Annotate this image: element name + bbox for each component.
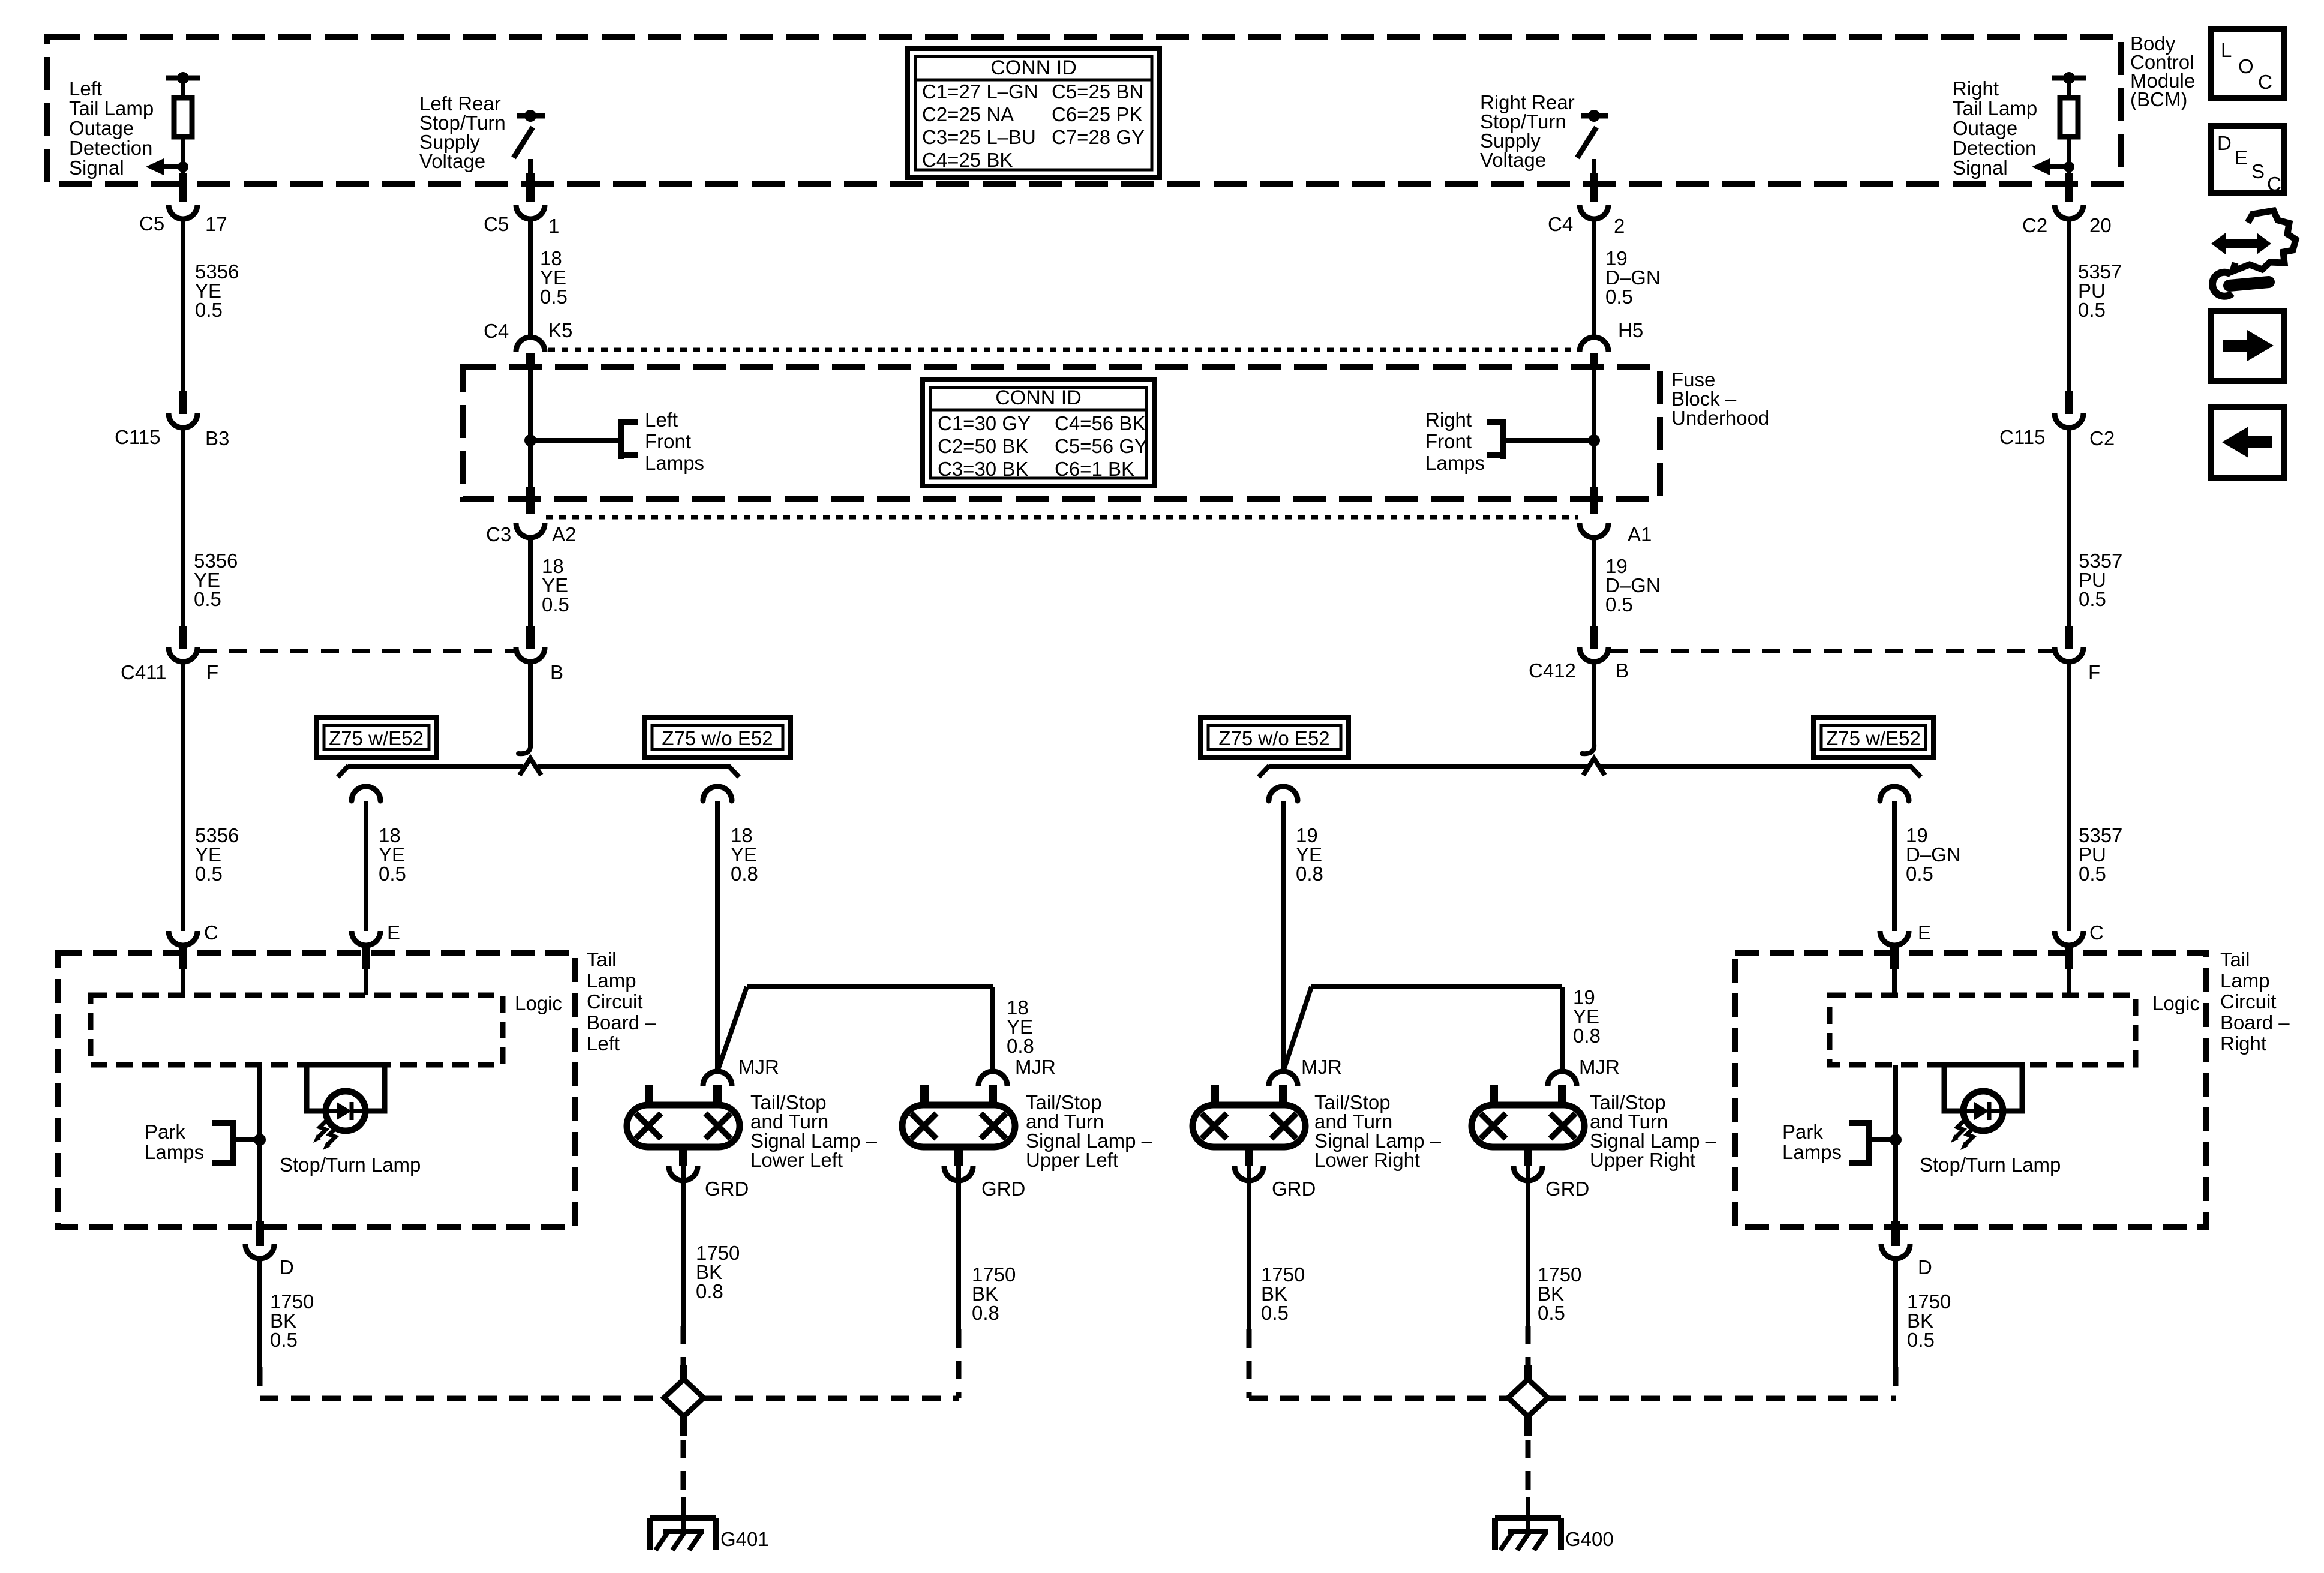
svg-text:E: E	[2235, 146, 2248, 169]
svg-text:E: E	[387, 921, 400, 944]
wire 5356 YE 0.5 (C411 to tail lamp board left)	[181, 662, 185, 931]
connector C2 pin 20	[2055, 205, 2083, 219]
wire 19 D-GN 0.5 (A1 to C412)	[1592, 538, 1596, 629]
svg-text:Left: Left	[69, 77, 102, 100]
svg-text:Stop/Turn Lamp: Stop/Turn Lamp	[1920, 1154, 2061, 1176]
svg-text:C6=1 BK: C6=1 BK	[1055, 458, 1134, 480]
svg-text:Right: Right	[2220, 1032, 2266, 1055]
svg-text:D: D	[280, 1256, 294, 1278]
resistor R-right (outage detection)	[2052, 72, 2086, 178]
svg-text:C5=56 GY: C5=56 GY	[1055, 435, 1148, 457]
resistor R-left (outage detection)	[166, 72, 200, 178]
svg-text:C115: C115	[1999, 426, 2045, 448]
CONN ID table (BCM)	[908, 49, 1160, 178]
node right front lamps junction	[1588, 434, 1600, 446]
wire to park lamps (left)	[233, 1137, 260, 1142]
wire 5357 PU 0.5 (C412 to tail lamp board right)	[2067, 662, 2071, 931]
svg-text:0.5: 0.5	[2079, 863, 2106, 885]
inner wire E to logic (left board, C)	[181, 969, 185, 995]
left option bus	[338, 758, 739, 777]
svg-text:B3: B3	[205, 427, 229, 449]
wire B down to right bus	[1592, 662, 1596, 746]
inner wire MJR jumper (left)	[717, 987, 993, 1071]
wire 19 YE 0.8 branch to MJR lower right	[1281, 801, 1286, 1071]
connector C (right board)	[2055, 931, 2083, 945]
svg-text:C5: C5	[139, 212, 164, 235]
Z75 w/o E52 option box (left)	[644, 718, 791, 757]
svg-text:17: 17	[205, 213, 227, 235]
svg-text:Outage: Outage	[69, 117, 134, 139]
wire inside fuse block (left)	[528, 368, 533, 491]
connector C5 pin 17	[169, 205, 197, 219]
svg-text:Right: Right	[1425, 409, 1472, 431]
svg-text:A1: A1	[1628, 523, 1652, 545]
wire 18 YE 0.5 (A2 to C411)	[528, 538, 533, 629]
svg-text:Z75 w/o E52: Z75 w/o E52	[662, 727, 773, 749]
icon LOC box	[2211, 29, 2284, 98]
svg-text:Park: Park	[1782, 1121, 1823, 1143]
icon DESC box	[2211, 126, 2284, 195]
connector C115 pin B3	[179, 391, 187, 414]
svg-text:Upper Left: Upper Left	[1026, 1149, 1118, 1171]
svg-text:0.8: 0.8	[696, 1280, 723, 1302]
wire 18 YE 0.5 branch to E left	[364, 801, 368, 931]
lamp tail/stop and turn signal upper right	[1472, 1085, 1584, 1181]
tail lamp circuit board left dashed box	[58, 953, 575, 1227]
svg-text:C115: C115	[115, 426, 160, 448]
fuse block underhood dashed box	[463, 367, 1660, 499]
svg-text:Tail: Tail	[2220, 948, 2250, 971]
svg-text:MJR: MJR	[738, 1056, 779, 1078]
svg-text:Lamp: Lamp	[2220, 969, 2270, 992]
connector C5 pin 1	[516, 205, 545, 219]
svg-text:0.5: 0.5	[1605, 286, 1633, 308]
LED stop/turn lamp (right)	[1944, 1065, 2022, 1150]
svg-text:G400: G400	[1565, 1528, 1614, 1550]
wire 1750 BK 0.5 (upper right lamp ground)	[1526, 1166, 1530, 1326]
connector C4 pin K5 (fuse block)	[516, 337, 545, 352]
connector C (left board)	[169, 931, 197, 945]
svg-text:A2: A2	[552, 523, 576, 545]
svg-text:0.8: 0.8	[972, 1302, 999, 1324]
dashed connector line C412	[1610, 649, 2053, 653]
lamp tail/stop and turn signal lower left	[627, 1085, 740, 1181]
wire 19 D-GN 0.5 (C4-2 to fuse block)	[1592, 219, 1596, 336]
svg-text:C5=25 BN: C5=25 BN	[1052, 80, 1143, 103]
svg-text:0.5: 0.5	[1538, 1302, 1565, 1324]
svg-text:Lamps: Lamps	[645, 452, 704, 474]
inner wire to logic (right board, C)	[2067, 969, 2071, 995]
svg-text:Right: Right	[1953, 77, 1999, 100]
wire 5356 YE 0.5 (C115 to C411)	[181, 428, 185, 629]
svg-text:C: C	[2267, 173, 2281, 195]
harness dotted boundary top (K5 to H5)	[548, 348, 1577, 352]
svg-text:E: E	[1918, 921, 1931, 944]
svg-text:0.8: 0.8	[1007, 1035, 1034, 1057]
svg-text:C6=25 PK: C6=25 PK	[1052, 103, 1142, 125]
svg-text:C2=25 NA: C2=25 NA	[922, 103, 1014, 125]
connector D (left board)	[245, 1244, 274, 1259]
node park lamps junction (right)	[1890, 1134, 1902, 1146]
svg-text:0.5: 0.5	[540, 286, 568, 308]
svg-text:0.5: 0.5	[1906, 863, 1933, 885]
svg-text:C2: C2	[2089, 427, 2115, 449]
svg-text:0.5: 0.5	[270, 1329, 298, 1351]
ground G401	[650, 1500, 716, 1550]
branch hook MJR (right w/o E52)	[1269, 786, 1298, 801]
svg-text:GRD: GRD	[1545, 1178, 1589, 1200]
wire end curl (right B)	[1582, 744, 1594, 754]
svg-text:1: 1	[548, 215, 559, 237]
splice diamond left	[664, 1365, 704, 1436]
wire 1750 BK 0.5 (left D to ground)	[257, 1259, 262, 1367]
wire 5357 PU 0.5 (BCM to C115 right)	[2067, 219, 2071, 393]
wire 1750 BK 0.5 (right D to ground)	[1893, 1259, 1898, 1367]
ground lead G401	[681, 1440, 686, 1500]
wire 5357 PU 0.5 (C115 to C412)	[2067, 428, 2071, 629]
svg-text:C3=30 BK: C3=30 BK	[938, 458, 1028, 480]
connector D (right board)	[1881, 1244, 1910, 1259]
wire 18 YE 0.5 (C5-1 to fuse block)	[528, 219, 533, 336]
svg-text:C: C	[2089, 921, 2104, 944]
svg-text:0.5: 0.5	[195, 863, 223, 885]
wire 1750 BK 0.8 (upper left lamp ground)	[956, 1166, 961, 1329]
branch hook E (left w/E52)	[352, 786, 380, 801]
Z75 w/E52 option box (left)	[316, 718, 437, 757]
connector C412 pin B	[1590, 626, 1598, 649]
svg-text:C4: C4	[1548, 213, 1573, 235]
lamp tail/stop and turn signal upper left	[902, 1085, 1015, 1181]
right front lamps bracket	[1487, 419, 1503, 459]
svg-text:Outage: Outage	[1953, 117, 2017, 139]
svg-text:Detection: Detection	[1953, 137, 2036, 159]
svg-text:Circuit: Circuit	[2220, 990, 2277, 1013]
svg-text:Detection: Detection	[69, 137, 152, 159]
svg-text:Board –: Board –	[587, 1011, 656, 1034]
svg-text:B: B	[550, 661, 563, 683]
logic output wire to D (left)	[257, 1065, 262, 1224]
svg-text:S: S	[2251, 160, 2265, 182]
wire B down to left bus	[528, 662, 533, 746]
logic output wire to D (right)	[1893, 1065, 1898, 1224]
svg-text:Signal: Signal	[1953, 157, 2008, 179]
node left front lamps junction	[524, 434, 536, 446]
connector C411 pin B	[526, 626, 535, 649]
svg-text:Lower Left: Lower Left	[750, 1149, 843, 1171]
svg-text:C2: C2	[2022, 214, 2047, 236]
svg-text:Tail Lamp: Tail Lamp	[1953, 97, 2037, 119]
LED stop/turn lamp (left)	[307, 1065, 385, 1150]
svg-text:Park: Park	[145, 1121, 185, 1143]
left front lamps bracket	[621, 419, 638, 459]
connector E (left board)	[352, 931, 380, 945]
ground lead G400	[1526, 1440, 1531, 1500]
park lamps bracket (left)	[212, 1120, 233, 1166]
logic box (right)	[1830, 995, 2136, 1065]
svg-text:C: C	[2258, 71, 2272, 93]
tail lamp circuit board right dashed box	[1735, 953, 2206, 1227]
svg-text:Left: Left	[587, 1032, 620, 1055]
right option bus	[1259, 758, 1921, 777]
svg-text:0.5: 0.5	[1605, 593, 1633, 616]
svg-text:MJR: MJR	[1301, 1056, 1342, 1078]
svg-text:Voltage: Voltage	[419, 150, 485, 172]
ground G400	[1495, 1500, 1561, 1550]
connector C412 pin F	[2065, 626, 2073, 649]
svg-text:C411: C411	[121, 661, 166, 683]
switch SW-right (stop/turn supply)	[1577, 110, 1608, 178]
wire to left front lamps	[530, 438, 621, 443]
connector MJR (lower left lamp)	[703, 1071, 732, 1086]
lamp tail/stop and turn signal lower right	[1193, 1085, 1305, 1181]
wire 5356 YE 0.5 (BCM to C115)	[181, 219, 185, 393]
svg-text:Stop/Turn Lamp: Stop/Turn Lamp	[280, 1154, 421, 1176]
arrow left (signal out)	[146, 158, 188, 175]
stub through fuse block bottom (right)	[1590, 487, 1598, 514]
wire stub through BCM edge (left supply)	[526, 173, 535, 202]
svg-text:GRD: GRD	[981, 1178, 1025, 1200]
svg-text:L: L	[2221, 39, 2232, 61]
connector E (right board)	[1880, 931, 1909, 945]
svg-text:0.5: 0.5	[195, 299, 223, 321]
svg-text:0.8: 0.8	[731, 863, 758, 885]
svg-text:Tail: Tail	[587, 948, 617, 971]
svg-text:O: O	[2238, 55, 2254, 77]
wire 18 YE 0.8 branch to MJR lower left	[715, 801, 720, 1071]
Z75 w/o E52 option box (right)	[1200, 718, 1349, 757]
svg-text:0.5: 0.5	[542, 593, 569, 616]
connector MJR (upper left lamp)	[978, 1071, 1007, 1086]
connector MJR (lower right lamp)	[1269, 1071, 1298, 1086]
svg-text:GRD: GRD	[1272, 1178, 1316, 1200]
connector C411 pin F	[179, 626, 187, 649]
svg-text:Front: Front	[1425, 430, 1472, 452]
svg-text:Lamp: Lamp	[587, 969, 636, 992]
svg-text:Upper Right: Upper Right	[1590, 1149, 1695, 1171]
svg-text:Voltage: Voltage	[1480, 149, 1546, 171]
svg-text:Lower Right: Lower Right	[1314, 1149, 1420, 1171]
wire to park lamps (right)	[1869, 1137, 1896, 1142]
svg-text:0.8: 0.8	[1573, 1025, 1601, 1047]
svg-text:MJR: MJR	[1015, 1056, 1056, 1078]
icon back arrow box	[2211, 407, 2284, 478]
svg-text:C1=30 GY: C1=30 GY	[938, 412, 1031, 434]
svg-text:Z75 w/E52: Z75 w/E52	[329, 727, 424, 749]
stub through fuse block bottom (left)	[526, 487, 535, 514]
wire stub through BCM edge (right supply)	[1590, 173, 1598, 202]
icon service arrow and wrench	[2211, 211, 2296, 296]
svg-text:0.5: 0.5	[1907, 1329, 1935, 1351]
wire 19 D-GN 0.5 branch to E right	[1892, 801, 1897, 931]
wire inside fuse block (right)	[1592, 368, 1596, 491]
svg-text:C3=25 L–BU: C3=25 L–BU	[922, 126, 1036, 148]
svg-text:D: D	[1918, 1256, 1932, 1278]
connector C3 pin A2	[516, 523, 545, 538]
wire to right front lamps	[1503, 438, 1594, 443]
stub through board bottom (right D)	[1891, 1221, 1900, 1246]
svg-text:0.5: 0.5	[194, 588, 221, 610]
connector C4 pin 2	[1580, 205, 1608, 219]
svg-text:MJR: MJR	[1579, 1056, 1620, 1078]
wire end curl (left B)	[518, 744, 530, 754]
svg-text:C7=28 GY: C7=28 GY	[1052, 126, 1145, 148]
svg-text:0.5: 0.5	[2079, 588, 2106, 610]
svg-text:20: 20	[2089, 214, 2112, 236]
dashed connector line C411	[199, 649, 515, 653]
svg-text:CONN ID: CONN ID	[995, 386, 1082, 409]
svg-text:Underhood: Underhood	[1671, 407, 1769, 429]
svg-text:D: D	[2217, 132, 2232, 154]
icon forward arrow box	[2211, 311, 2284, 381]
wire stub through BCM edge (right outage)	[2065, 173, 2073, 202]
svg-text:(BCM): (BCM)	[2130, 88, 2187, 110]
svg-text:0.8: 0.8	[1296, 863, 1323, 885]
arrow right (signal out)	[2032, 158, 2074, 175]
svg-text:Z75 w/o E52: Z75 w/o E52	[1218, 727, 1329, 749]
svg-text:0.5: 0.5	[379, 863, 406, 885]
inner wire E to logic (left board, E)	[364, 969, 368, 995]
svg-text:Lamps: Lamps	[145, 1141, 204, 1163]
svg-text:C4=56 BK: C4=56 BK	[1055, 412, 1145, 434]
body control module dashed box	[47, 37, 2121, 184]
park lamps bracket (right)	[1849, 1120, 1869, 1166]
svg-text:Lamps: Lamps	[1425, 452, 1485, 474]
svg-text:C1=27 L–GN: C1=27 L–GN	[922, 80, 1038, 103]
branch hook MJR (left w/o E52)	[703, 786, 732, 801]
connector A1	[1580, 523, 1608, 538]
svg-text:Logic: Logic	[2152, 992, 2200, 1014]
svg-text:0.5: 0.5	[1261, 1302, 1289, 1324]
svg-text:H5: H5	[1618, 319, 1643, 341]
connector MJR (upper right lamp)	[1548, 1071, 1577, 1086]
wire stub through BCM edge (left outage)	[179, 173, 187, 202]
svg-text:2: 2	[1614, 215, 1625, 237]
svg-text:Front: Front	[645, 430, 691, 452]
svg-text:Tail Lamp: Tail Lamp	[69, 97, 154, 119]
svg-text:C: C	[204, 921, 218, 944]
inner wire MJR jumper (right)	[1283, 987, 1562, 1071]
svg-text:G401: G401	[720, 1528, 769, 1550]
svg-text:0.5: 0.5	[2078, 299, 2106, 321]
svg-text:F: F	[2088, 661, 2100, 683]
svg-text:C412: C412	[1529, 659, 1576, 682]
logic box (left)	[91, 995, 503, 1065]
switch SW-left (stop/turn supply)	[514, 110, 545, 178]
wire 1750 BK 0.8 (lower left lamp ground)	[681, 1166, 686, 1326]
svg-text:Signal: Signal	[69, 157, 124, 179]
svg-text:F: F	[206, 661, 218, 683]
svg-text:C2=50 BK: C2=50 BK	[938, 435, 1028, 457]
svg-text:GRD: GRD	[705, 1178, 749, 1200]
svg-text:Circuit: Circuit	[587, 990, 643, 1013]
svg-text:Z75 w/E52: Z75 w/E52	[1826, 727, 1921, 749]
splice diamond right	[1508, 1365, 1548, 1436]
harness dotted boundary bottom (A2 to A1)	[546, 515, 1578, 520]
svg-text:C3: C3	[486, 523, 511, 545]
svg-text:Lamps: Lamps	[1782, 1141, 1842, 1163]
svg-text:Left: Left	[645, 409, 678, 431]
connector C115 pin C2 (right)	[2065, 391, 2073, 414]
svg-text:K5: K5	[548, 319, 572, 341]
CONN ID table (fuse block)	[923, 380, 1154, 486]
Z75 w/E52 option box (right)	[1813, 718, 1933, 757]
node park lamps junction (left)	[254, 1134, 266, 1146]
svg-text:CONN ID: CONN ID	[990, 56, 1077, 79]
svg-text:C4: C4	[484, 320, 509, 342]
svg-text:C5: C5	[484, 213, 509, 235]
svg-text:Board –: Board –	[2220, 1011, 2290, 1034]
branch hook E (right w/E52)	[1880, 786, 1909, 801]
svg-text:B: B	[1616, 659, 1629, 682]
svg-text:Logic: Logic	[515, 992, 562, 1014]
svg-text:C4=25 BK: C4=25 BK	[922, 149, 1013, 171]
inner wire to logic (right board, E)	[1892, 969, 1897, 995]
stub through board bottom (left D)	[256, 1221, 264, 1246]
wire 1750 BK 0.5 (lower right lamp ground)	[1247, 1166, 1251, 1329]
connector H5 (fuse block)	[1580, 337, 1608, 352]
